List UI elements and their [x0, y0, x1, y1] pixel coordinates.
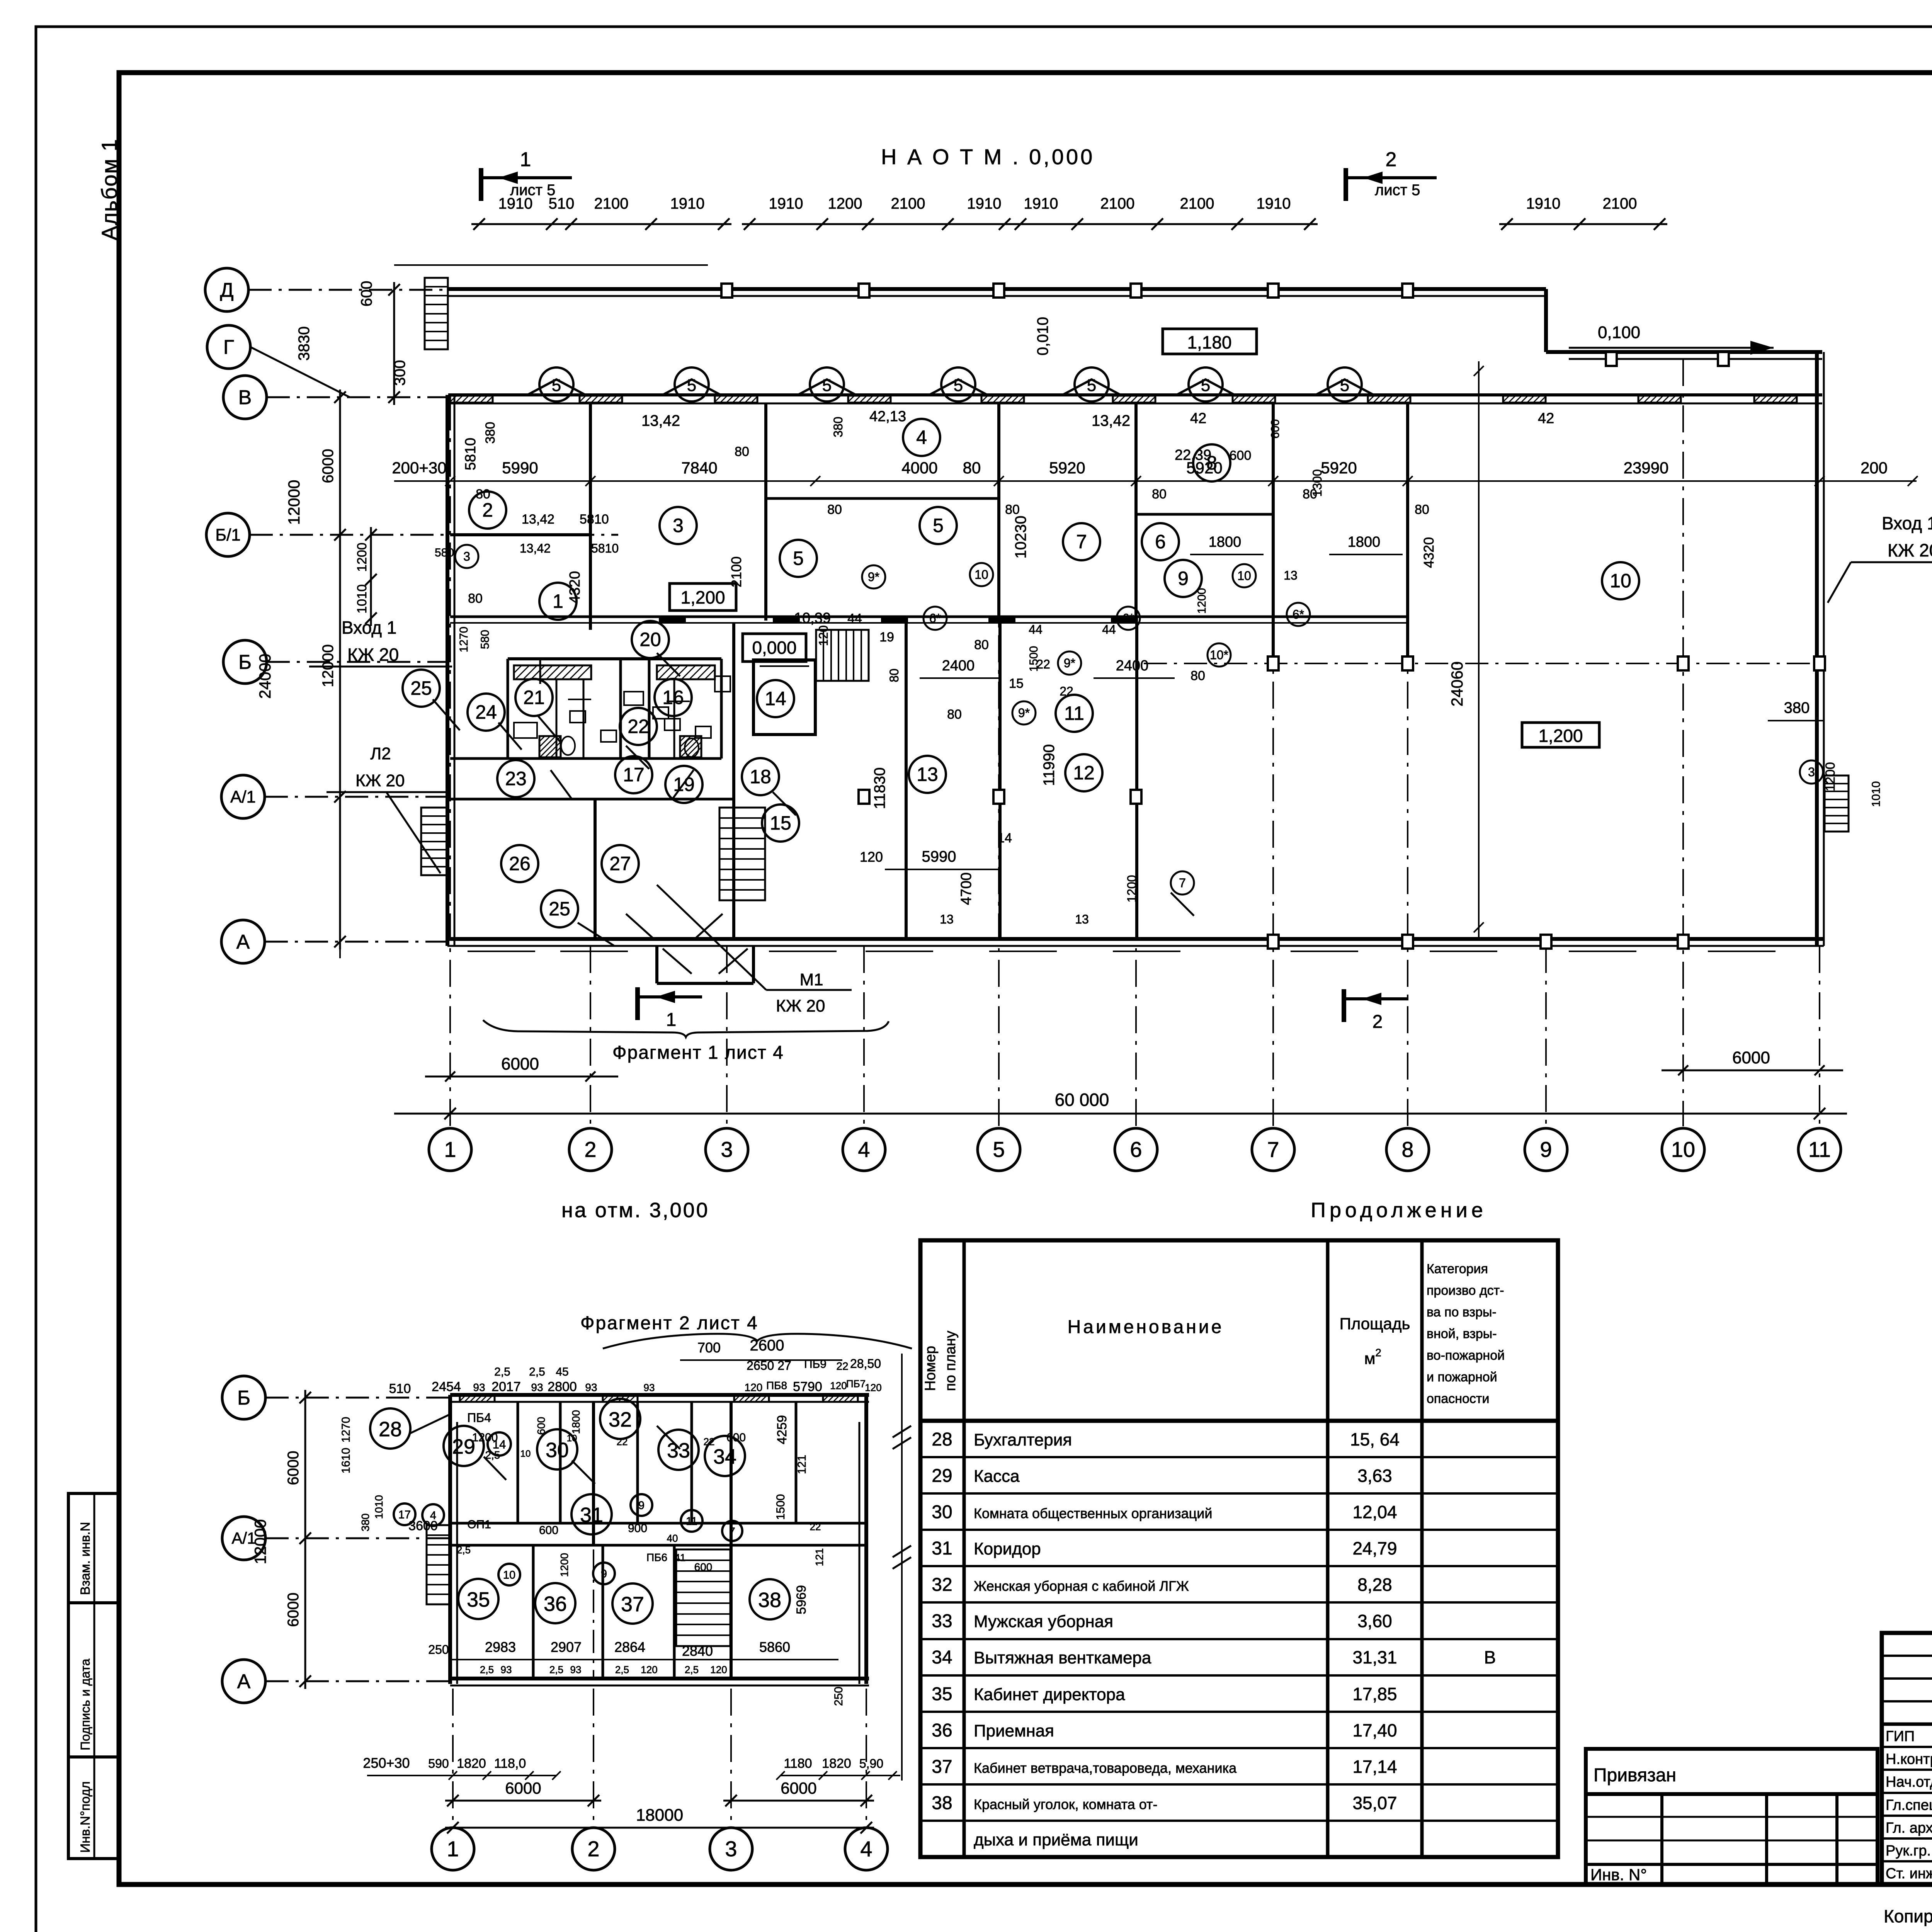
svg-text:2,5: 2,5: [615, 1664, 629, 1675]
svg-text:1270: 1270: [457, 627, 470, 653]
svg-text:Комната общественных организац: Комната общественных организаций: [974, 1505, 1212, 1521]
svg-text:93: 93: [570, 1664, 582, 1675]
svg-text:1820: 1820: [822, 1756, 851, 1771]
svg-text:33: 33: [667, 1439, 690, 1462]
svg-text:1910: 1910: [670, 195, 705, 212]
svg-text:36: 36: [932, 1720, 952, 1741]
svg-text:600: 600: [1230, 448, 1252, 463]
svg-text:9: 9: [1178, 568, 1189, 589]
svg-text:1200: 1200: [1823, 762, 1838, 791]
svg-text:1910: 1910: [1526, 195, 1561, 212]
svg-text:3: 3: [721, 1137, 733, 1162]
svg-text:118,0: 118,0: [494, 1756, 526, 1771]
svg-text:17,40: 17,40: [1352, 1720, 1397, 1740]
svg-text:9*: 9*: [868, 570, 879, 584]
bench room 21: [514, 665, 591, 679]
svg-text:2100: 2100: [1180, 195, 1214, 212]
room 20 number circle: [632, 621, 669, 658]
svg-text:2864: 2864: [614, 1639, 645, 1655]
svg-text:44: 44: [847, 611, 862, 626]
svg-text:300: 300: [391, 360, 408, 386]
svg-text:10: 10: [1610, 570, 1631, 592]
section mark 1 bottom: [635, 987, 640, 1020]
room 5 number circle: [920, 507, 957, 544]
level mark 0.000: [743, 634, 806, 662]
svg-text:80: 80: [1005, 502, 1020, 517]
column squares: [721, 284, 732, 298]
svg-text:7840: 7840: [681, 459, 717, 477]
svg-text:17,14: 17,14: [1352, 1757, 1397, 1777]
svg-text:28: 28: [379, 1418, 402, 1441]
svg-text:2: 2: [584, 1137, 596, 1162]
level mark 1.200 left: [670, 583, 736, 611]
svg-text:5: 5: [1340, 376, 1349, 395]
vent mark 5 #6 on wall В: [1177, 379, 1235, 395]
svg-text:Инв.N°подл: Инв.N°подл: [78, 1781, 93, 1853]
svg-text:42: 42: [1538, 410, 1554, 427]
svg-text:6: 6: [1155, 531, 1166, 553]
svg-text:4320: 4320: [1421, 537, 1437, 568]
svg-text:Коридор: Коридор: [974, 1539, 1041, 1558]
plan2 room circles: [370, 1408, 410, 1449]
svg-text:2,5: 2,5: [480, 1664, 494, 1675]
svg-text:25: 25: [410, 677, 432, 699]
corridor north wall: [450, 616, 1408, 618]
svg-text:Альбом 1: Альбом 1: [97, 138, 121, 240]
svg-text:2,5: 2,5: [485, 1449, 500, 1461]
svg-text:380: 380: [483, 422, 498, 444]
entrance stair right: [1825, 776, 1849, 832]
bottom dimension 6000 right: [1662, 1070, 1843, 1071]
svg-text:120: 120: [865, 1382, 881, 1393]
interior dimension line 1245: [394, 480, 1917, 482]
room 25 number circle: [403, 670, 440, 707]
svg-text:1800: 1800: [570, 1410, 582, 1434]
svg-text:93: 93: [531, 1381, 543, 1393]
svg-text:17,85: 17,85: [1352, 1684, 1397, 1704]
svg-text:29: 29: [932, 1466, 952, 1486]
svg-text:510: 510: [549, 195, 575, 212]
svg-text:121: 121: [796, 1455, 808, 1474]
room 10 number circle: [1602, 562, 1639, 599]
svg-text:13: 13: [940, 912, 954, 926]
svg-text:60 000: 60 000: [1055, 1090, 1109, 1110]
svg-text:1200: 1200: [1125, 875, 1139, 902]
svg-text:А/1: А/1: [230, 787, 256, 806]
svg-text:600: 600: [726, 1431, 746, 1444]
svg-text:2: 2: [1375, 1347, 1381, 1359]
svg-text:1200: 1200: [355, 543, 369, 572]
svg-text:Вход 1: Вход 1: [342, 617, 396, 638]
svg-text:Вход 1: Вход 1: [1882, 513, 1932, 533]
svg-text:24060: 24060: [1448, 662, 1466, 707]
svg-text:2100: 2100: [1603, 195, 1637, 212]
bottom exterior wall axis А: [447, 937, 1824, 941]
room 3 number circle: [660, 507, 697, 544]
svg-text:5: 5: [1087, 376, 1096, 395]
svg-text:2: 2: [1386, 148, 1397, 171]
svg-text:6000: 6000: [285, 1593, 302, 1627]
svg-text:В: В: [1484, 1647, 1496, 1667]
svg-text:5990: 5990: [922, 848, 956, 865]
svg-text:1500: 1500: [1027, 646, 1040, 672]
axis 2 circle: [572, 1828, 615, 1870]
svg-text:10,39: 10,39: [794, 610, 831, 626]
vent mark 5 #2 on wall В: [663, 379, 721, 395]
svg-text:4700: 4700: [958, 872, 975, 905]
svg-text:12,04: 12,04: [1352, 1502, 1397, 1522]
svg-text:80: 80: [1152, 487, 1167, 502]
svg-text:5: 5: [552, 376, 561, 395]
axis А/1 circle: [222, 1517, 265, 1560]
svg-text:120: 120: [816, 625, 830, 646]
svg-text:8: 8: [1401, 1137, 1413, 1162]
axis Б circle: [223, 640, 267, 684]
svg-text:1910: 1910: [967, 195, 1002, 212]
svg-text:30: 30: [932, 1502, 952, 1522]
svg-text:200+30: 200+30: [392, 459, 446, 477]
svg-text:700: 700: [697, 1340, 721, 1355]
svg-text:600: 600: [535, 1417, 547, 1435]
svg-text:КЖ 20: КЖ 20: [1888, 540, 1932, 560]
svg-text:2454: 2454: [432, 1379, 461, 1394]
svg-text:Б: Б: [238, 651, 252, 673]
svg-text:2,5: 2,5: [685, 1664, 699, 1675]
svg-text:9: 9: [1540, 1137, 1552, 1162]
svg-text:1270: 1270: [340, 1417, 352, 1443]
svg-text:22: 22: [704, 1436, 715, 1447]
svg-text:Бухгалтерия: Бухгалтерия: [974, 1430, 1072, 1449]
svg-text:32: 32: [932, 1575, 952, 1595]
window wall axis В: [448, 393, 1822, 396]
axis 9 circle: [1525, 1128, 1567, 1171]
svg-text:5: 5: [954, 376, 963, 395]
svg-text:2: 2: [482, 499, 493, 521]
svg-text:1300: 1300: [1310, 469, 1324, 497]
level mark 1.200 room 10: [1522, 723, 1599, 747]
svg-text:38: 38: [932, 1793, 952, 1813]
svg-text:35,07: 35,07: [1352, 1793, 1397, 1813]
svg-text:1,200: 1,200: [1538, 726, 1583, 746]
svg-text:0,100: 0,100: [1598, 323, 1640, 342]
svg-text:510: 510: [389, 1381, 411, 1396]
svg-text:Взам. инв.N: Взам. инв.N: [78, 1522, 93, 1595]
svg-text:8,28: 8,28: [1357, 1575, 1392, 1595]
svg-text:3: 3: [673, 515, 684, 536]
svg-text:38: 38: [758, 1588, 781, 1612]
top dimension chains: [471, 223, 731, 225]
svg-text:ПБ7: ПБ7: [846, 1378, 866, 1389]
svg-text:6000: 6000: [505, 1779, 541, 1797]
svg-text:15: 15: [770, 812, 791, 834]
svg-text:1500: 1500: [774, 1494, 787, 1520]
svg-text:5810: 5810: [591, 541, 619, 555]
svg-text:7: 7: [729, 1526, 735, 1537]
svg-text:Б/1: Б/1: [215, 526, 241, 544]
axis 8 circle: [1386, 1128, 1429, 1171]
svg-text:1910: 1910: [1257, 195, 1291, 212]
svg-text:21: 21: [523, 687, 545, 708]
svg-text:2600: 2600: [750, 1337, 784, 1354]
room 27 number circle: [602, 845, 639, 882]
svg-text:10: 10: [975, 568, 988, 582]
axis 10 circle: [1662, 1128, 1704, 1171]
svg-text:5: 5: [822, 376, 832, 395]
svg-text:Кабинет директора: Кабинет директора: [974, 1685, 1125, 1704]
svg-text:2907: 2907: [551, 1639, 582, 1655]
svg-text:2650 27: 2650 27: [747, 1359, 791, 1372]
svg-text:2: 2: [587, 1837, 599, 1861]
svg-text:11990: 11990: [1041, 744, 1058, 786]
svg-text:Красный уголок, комната от-: Красный уголок, комната от-: [974, 1796, 1158, 1812]
axis 11 circle: [1798, 1128, 1841, 1171]
svg-text:м: м: [1364, 1349, 1376, 1367]
svg-text:2100: 2100: [1100, 195, 1135, 212]
title block small grid: [1586, 1794, 1878, 1884]
svg-text:9: 9: [638, 1500, 645, 1512]
svg-text:Касса: Касса: [974, 1467, 1020, 1486]
svg-text:26: 26: [509, 853, 531, 874]
svg-text:1200: 1200: [558, 1553, 570, 1577]
svg-text:12000: 12000: [285, 480, 303, 525]
svg-text:32: 32: [609, 1408, 632, 1431]
level mark 1.180: [1163, 329, 1257, 354]
svg-text:Б: Б: [237, 1387, 250, 1409]
svg-text:1,180: 1,180: [1187, 332, 1231, 352]
room 15 number circle: [762, 804, 799, 842]
svg-text:31: 31: [932, 1538, 952, 1559]
svg-text:5810: 5810: [580, 512, 609, 527]
svg-text:М1: М1: [799, 970, 823, 989]
svg-text:19: 19: [673, 774, 695, 795]
entrance stair left: [421, 808, 448, 875]
left margin stamp boxes: [68, 1493, 119, 1603]
interior walls upper band: [589, 403, 592, 630]
svg-text:4000: 4000: [901, 459, 937, 477]
svg-text:80: 80: [735, 444, 749, 459]
svg-text:5810: 5810: [463, 438, 479, 471]
room 17 number circle: [615, 756, 652, 793]
plan2 interior walls: [517, 1402, 519, 1523]
left exterior wall: [446, 395, 449, 946]
stair room 27: [719, 808, 765, 900]
svg-text:250+30: 250+30: [363, 1755, 410, 1771]
door swings corridor: [551, 770, 694, 799]
axis 4 circle: [843, 1128, 885, 1171]
svg-text:35: 35: [467, 1588, 490, 1611]
svg-text:580: 580: [479, 630, 492, 649]
svg-text:А: А: [237, 1670, 251, 1693]
svg-text:1200: 1200: [828, 195, 862, 212]
svg-text:1: 1: [444, 1137, 456, 1162]
svg-text:24000: 24000: [256, 654, 274, 699]
svg-text:Ст. инж.: Ст. инж.: [1886, 1866, 1932, 1882]
signature table: [1882, 1633, 1932, 1884]
bottom dimension 60000: [394, 1113, 1847, 1115]
plan2 exterior walls: [450, 1393, 869, 1397]
svg-text:1910: 1910: [1024, 195, 1058, 212]
svg-text:Женская уборная с кабиной ЛГЖ: Женская уборная с кабиной ЛГЖ: [974, 1578, 1189, 1594]
svg-text:3,63: 3,63: [1357, 1466, 1392, 1486]
svg-text:380: 380: [359, 1514, 371, 1532]
svg-text:5790: 5790: [793, 1379, 822, 1394]
svg-text:23990: 23990: [1624, 459, 1669, 477]
external stair top-left: [425, 278, 448, 349]
plan2 corridor walls: [450, 1522, 866, 1525]
svg-text:10*: 10*: [1210, 648, 1228, 662]
svg-text:2,5: 2,5: [457, 1544, 471, 1556]
svg-text:11: 11: [1064, 702, 1084, 724]
svg-text:120: 120: [641, 1664, 657, 1675]
svg-text:5860: 5860: [759, 1639, 790, 1655]
vent mark 5 #1 on wall В: [527, 379, 585, 395]
svg-text:17: 17: [623, 764, 645, 786]
svg-text:22: 22: [836, 1360, 848, 1372]
svg-text:Фрагмент 1 лист 4: Фрагмент 1 лист 4: [612, 1043, 784, 1063]
svg-text:2: 2: [1372, 1012, 1383, 1032]
svg-text:2800: 2800: [548, 1379, 577, 1394]
svg-text:13: 13: [917, 764, 938, 785]
svg-text:по плану: по плану: [942, 1331, 959, 1391]
svg-text:2100: 2100: [891, 195, 925, 212]
svg-text:13,42: 13,42: [520, 541, 551, 555]
svg-text:ПБ9: ПБ9: [804, 1358, 827, 1371]
svg-text:380: 380: [1784, 699, 1810, 716]
washroom fixtures: [570, 711, 585, 723]
svg-text:18000: 18000: [636, 1806, 683, 1825]
svg-text:600: 600: [539, 1524, 558, 1537]
svg-text:3600: 3600: [408, 1519, 438, 1533]
room 11 number circle: [1056, 695, 1093, 732]
svg-text:2017: 2017: [492, 1379, 521, 1394]
svg-text:2400: 2400: [942, 658, 975, 674]
svg-text:9*: 9*: [1018, 706, 1030, 720]
step corner right top: [1544, 289, 1548, 352]
svg-text:Фрагмент 2 лист 4: Фрагмент 2 лист 4: [580, 1313, 759, 1333]
svg-text:2,5: 2,5: [494, 1366, 510, 1378]
room 5 number circle: [780, 540, 817, 577]
svg-text:31: 31: [580, 1503, 603, 1527]
room 12 number circle: [1065, 754, 1102, 791]
svg-text:и пожарной: и пожарной: [1427, 1370, 1497, 1384]
svg-text:40: 40: [667, 1532, 678, 1544]
room 18 number circle: [742, 758, 779, 795]
svg-text:7: 7: [1267, 1137, 1279, 1162]
svg-text:1910: 1910: [498, 195, 533, 212]
svg-text:А: А: [236, 931, 250, 953]
svg-text:9: 9: [601, 1568, 607, 1580]
svg-text:31,31: 31,31: [1352, 1647, 1397, 1667]
svg-text:дыха и приёма пищи: дыха и приёма пищи: [974, 1830, 1138, 1849]
fragment 1 bracket: [483, 1020, 889, 1037]
svg-text:34: 34: [713, 1445, 736, 1468]
top exterior wall: [448, 287, 1546, 291]
svg-text:6000: 6000: [285, 1451, 302, 1485]
axis 5 circle: [978, 1128, 1020, 1171]
corridor south wall: [450, 798, 734, 801]
svg-text:14: 14: [997, 831, 1012, 845]
svg-text:14: 14: [765, 688, 786, 709]
svg-text:13: 13: [1075, 912, 1089, 926]
svg-text:5990: 5990: [502, 459, 538, 477]
svg-text:12: 12: [1073, 762, 1095, 784]
svg-text:КЖ 20: КЖ 20: [355, 771, 405, 790]
svg-text:КЖ 20: КЖ 20: [347, 645, 399, 665]
svg-text:5: 5: [1201, 376, 1210, 395]
svg-text:120: 120: [745, 1381, 763, 1393]
svg-text:Д: Д: [220, 279, 233, 301]
room 26 number circle: [501, 845, 538, 882]
svg-text:1800: 1800: [1348, 534, 1381, 550]
axis А circle: [222, 1660, 265, 1703]
room 21 number circle: [515, 679, 553, 716]
svg-text:80: 80: [887, 668, 901, 682]
svg-text:опасности: опасности: [1427, 1391, 1489, 1406]
room 2 number circle: [469, 492, 506, 529]
svg-text:1010: 1010: [373, 1495, 385, 1519]
svg-text:ва по взры-: ва по взры-: [1427, 1305, 1497, 1320]
svg-text:80: 80: [1190, 668, 1205, 683]
svg-text:2983: 2983: [485, 1639, 516, 1655]
svg-text:11830: 11830: [871, 767, 888, 809]
svg-text:2100: 2100: [728, 556, 744, 587]
svg-text:1: 1: [520, 148, 531, 171]
svg-text:лист 5: лист 5: [1375, 182, 1420, 199]
svg-text:600: 600: [1269, 419, 1282, 439]
svg-text:20: 20: [639, 629, 661, 650]
svg-text:1: 1: [447, 1837, 459, 1861]
svg-text:5969: 5969: [794, 1585, 809, 1614]
svg-text:22: 22: [628, 716, 649, 737]
svg-text:3: 3: [1808, 765, 1815, 779]
section mark 1 top: [479, 168, 483, 201]
svg-text:2840: 2840: [682, 1643, 713, 1659]
svg-text:1180: 1180: [784, 1756, 812, 1771]
wall room 27/15: [732, 623, 735, 939]
svg-text:Продолжение: Продолжение: [1311, 1199, 1487, 1222]
svg-text:42: 42: [1190, 410, 1206, 427]
svg-text:15: 15: [1009, 676, 1024, 691]
svg-text:Наименование: Наименование: [1068, 1317, 1224, 1337]
svg-text:12000: 12000: [251, 1519, 269, 1565]
svg-text:4: 4: [858, 1137, 870, 1162]
svg-text:5: 5: [993, 1137, 1005, 1162]
left vertical dimensions: [393, 282, 395, 405]
vent mark 5 #5 on wall В: [1063, 379, 1121, 395]
svg-text:28,50: 28,50: [850, 1357, 881, 1371]
svg-text:120: 120: [710, 1664, 727, 1675]
axis 7 circle: [1252, 1128, 1294, 1171]
svg-text:9*: 9*: [1064, 656, 1075, 670]
svg-text:600: 600: [694, 1561, 713, 1573]
room 14 number circle: [757, 680, 794, 717]
svg-text:1910: 1910: [769, 195, 803, 212]
room 13 number circle: [909, 756, 946, 793]
svg-text:Л2: Л2: [370, 744, 391, 763]
svg-text:2,5: 2,5: [529, 1366, 545, 1378]
toilet bowls: [561, 736, 575, 755]
svg-text:28: 28: [932, 1429, 952, 1450]
svg-text:13,42: 13,42: [641, 412, 680, 429]
svg-text:10230: 10230: [1012, 515, 1029, 558]
svg-text:250: 250: [832, 1687, 845, 1706]
svg-text:Н А О Т М . 0,000: Н А О Т М . 0,000: [881, 145, 1095, 169]
svg-text:на отм. 3,000: на отм. 3,000: [561, 1199, 709, 1222]
room 16 number circle: [655, 679, 692, 716]
svg-text:23: 23: [505, 768, 527, 789]
svg-text:6000: 6000: [501, 1054, 539, 1073]
svg-text:10: 10: [520, 1449, 531, 1459]
